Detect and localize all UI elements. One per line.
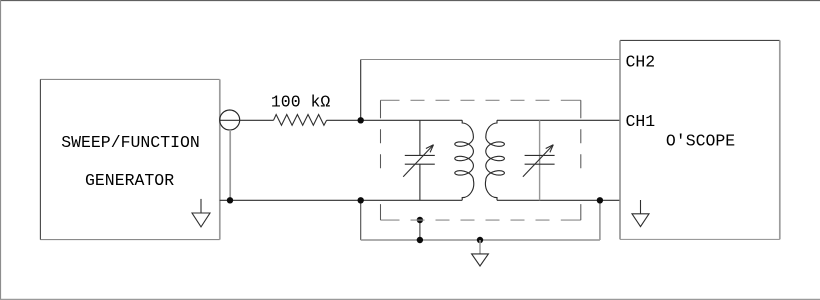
border frame bottom — [0, 298, 820, 300]
wire tank bottom rail to oscilloscope ground input — [497, 199, 620, 201]
svg-text:CH2: CH2 — [626, 52, 656, 71]
wire resistor to tank top rail (CH1 net) — [327, 119, 463, 121]
junction dot shield-to-bus on ground bus — [417, 237, 423, 243]
wire generator bottom to tank bottom rail — [220, 199, 463, 201]
border frame top — [0, 0, 820, 2]
dashed shield box vertical edges — [381, 100, 581, 220]
wire generator output to resistor — [220, 119, 274, 121]
ground bus bottom wire — [361, 239, 600, 241]
resistor R1 100 kOhm — [274, 115, 327, 126]
variable capacitor C2 — [523, 120, 555, 200]
wire terminal circle down to bottom rail — [229, 130, 231, 200]
wire tank top rail right of transformer to oscilloscope CH1 — [497, 119, 620, 121]
ground symbol inside generator — [192, 199, 210, 227]
svg-text:SWEEP/FUNCTION: SWEEP/FUNCTION — [61, 133, 200, 152]
svg-text:CH1: CH1 — [626, 112, 656, 131]
ground symbol center — [472, 240, 489, 266]
junction dot bottom rail left — [358, 197, 364, 203]
wire node A up to CH2 level — [360, 60, 362, 121]
junction dot at generator bottom — [227, 197, 233, 203]
transformer secondary winding L2 — [485, 120, 504, 200]
svg-text:100 kΩ: 100 kΩ — [271, 93, 331, 112]
dashed shield box around tank circuit — [381, 100, 581, 220]
ground bus right riser wire — [599, 200, 601, 240]
border frame left — [0, 0, 2, 300]
ground bus left drop wire — [360, 200, 362, 240]
variable capacitor C1 — [403, 120, 435, 200]
transformer primary winding L1 — [455, 120, 474, 200]
junction dot bottom rail right — [597, 197, 603, 203]
node A junction dot — [358, 117, 364, 123]
ground symbol inside oscilloscope — [632, 200, 649, 227]
wire shield box to ground bus — [419, 220, 421, 240]
junction dot on shield box edge — [417, 217, 423, 223]
svg-text:GENERATOR: GENERATOR — [85, 171, 174, 190]
svg-text:O'SCOPE: O'SCOPE — [666, 131, 735, 150]
junction dot ground bus center — [477, 237, 483, 243]
generator output terminal circle — [220, 110, 240, 130]
oscilloscope box — [620, 40, 780, 239]
sweep/function generator box — [40, 79, 219, 239]
wire across top to oscilloscope CH2 — [361, 59, 620, 61]
